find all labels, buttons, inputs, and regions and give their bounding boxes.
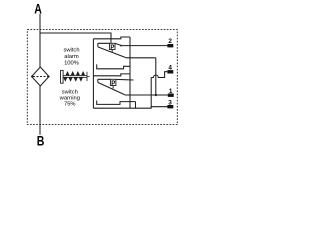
svg-text:2: 2 [168,38,172,45]
switch box divider [93,74,130,76]
contact blob S1 [120,45,122,47]
switch S1 lever tail wire [126,57,156,59]
svg-text:alarm: alarm [64,54,79,60]
svg-text:A: A [34,1,42,17]
terminal 4 wire with hop [151,72,167,78]
wire to terminal 1 [125,94,169,96]
indicator teeth up [65,71,85,76]
switch S1 P box [110,43,116,49]
port A line [39,14,41,67]
svg-text:switch: switch [63,47,79,53]
svg-text:warning: warning [59,96,80,102]
svg-text:P: P [111,81,115,87]
switch S1 inner [98,43,110,47]
svg-text:75%: 75% [64,102,76,108]
terminal 4 block [167,70,173,73]
svg-text:P: P [110,45,114,51]
svg-text:4: 4 [168,65,172,72]
terminal 1 block [168,94,174,97]
switch S2 contact link [116,78,134,81]
wire to terminal 2 [121,45,168,47]
filter element dashed line [33,76,48,78]
svg-text:1: 1 [169,88,173,95]
terminal 2 block [167,44,173,47]
svg-text:3: 3 [168,100,172,107]
switch S2 P box [110,79,116,85]
junction dot terminal1 net [155,94,157,96]
indicator teeth down [63,77,83,82]
vertical wire lever1 to terminal1 net [155,58,157,95]
svg-text:switch: switch [62,90,78,96]
port B line [39,86,41,135]
switch S2 inner [98,79,111,82]
wire A tap to pressure switch [40,33,111,43]
enclosure dashed box [27,30,177,125]
switch S2 lever [98,82,125,94]
switch box outline [92,39,94,108]
terminal 3 block [167,105,173,108]
wire to terminal 3 [151,107,167,109]
indicator actuator body [61,70,64,83]
filter F1 diamond [32,67,49,86]
vertical wire t4 net down [150,78,152,109]
switch S1 lever [98,47,126,58]
indicator band lines [63,72,90,81]
switch S1 hook contact [97,64,130,68]
switch S2 hook contact [97,101,136,109]
switch S1 contact link [115,43,121,45]
svg-text:100%: 100% [64,60,79,66]
svg-text:B: B [37,133,45,149]
filter element end dots [31,75,33,77]
